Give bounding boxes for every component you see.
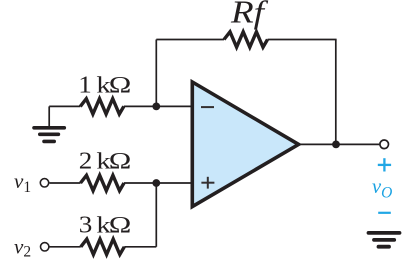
wire: feedback left vertical xyxy=(155,40,157,107)
svg-text:3: 3 xyxy=(79,211,93,238)
op-amp inverting input marker xyxy=(201,106,214,108)
ground (left) xyxy=(34,128,64,142)
resistor Rf zigzag xyxy=(224,32,268,47)
wire: op-amp output xyxy=(299,143,380,145)
label - polarity (cyan) xyxy=(378,212,391,214)
terminal v2 xyxy=(41,243,49,251)
svg-text:Ω: Ω xyxy=(109,148,132,174)
wire: feedback top horizontal left segment xyxy=(156,39,224,41)
label + polarity (cyan) xyxy=(378,158,391,171)
node: noninverting junction xyxy=(152,179,160,187)
wire: 2k to noninverting input xyxy=(124,182,192,184)
op-amp noninverting input marker xyxy=(201,177,214,189)
wire: feedback top horizontal right segment xyxy=(268,39,337,41)
svg-text:2: 2 xyxy=(79,147,93,174)
wire: v1 to 2k xyxy=(50,182,81,184)
ground (right, output reference) xyxy=(369,233,400,247)
resistor R3 3 kOhm zigzag xyxy=(81,239,125,254)
wire: v2 to 3k xyxy=(50,246,81,248)
op-amp U1 triangle xyxy=(192,82,298,207)
wire: ground stem left xyxy=(48,106,50,126)
svg-text:Ω: Ω xyxy=(109,212,132,238)
svg-text:Rf: Rf xyxy=(230,0,269,30)
wire: riser from 3k row to noninverting node xyxy=(155,183,157,247)
svg-text:1: 1 xyxy=(78,71,92,98)
node: inverting input junction xyxy=(152,103,160,111)
svg-text:Ω: Ω xyxy=(109,72,132,98)
node: output junction xyxy=(332,141,340,149)
wire: feedback right vertical xyxy=(335,40,337,145)
terminal v1 xyxy=(40,179,48,187)
resistor R1 1 kOhm zigzag xyxy=(80,99,124,114)
wire: ground to 1k resistor xyxy=(49,105,80,107)
resistor R2 2 kOhm zigzag xyxy=(81,175,125,190)
wire: 1k to inverting input xyxy=(124,105,193,107)
terminal vo output xyxy=(380,140,389,149)
wire: 3k to vertical riser xyxy=(124,246,156,248)
